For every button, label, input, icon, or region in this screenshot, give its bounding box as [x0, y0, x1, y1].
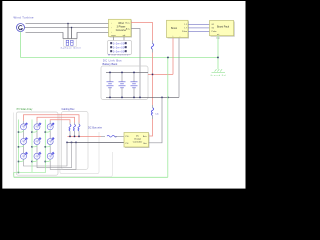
wire: generator ground green drop — [20, 32, 22, 58]
wire: battery positive rail — [106, 71, 148, 73]
wire: meter tap from phase B — [71, 28, 73, 40]
PV module PV5 — [32, 137, 41, 153]
node: negative bus junctions — [66, 142, 77, 144]
node: PV return junction — [18, 172, 20, 174]
wire: gate signal 1 — [188, 23, 210, 25]
PV module PV2 — [32, 122, 41, 138]
svg-text:Ldc: Ldc — [156, 114, 159, 116]
svg-text:Boost Pack: Boost Pack — [217, 26, 230, 29]
wire: red riser to boost block pin 1 — [172, 38, 174, 75]
svg-text:DC Bus wire: DC Bus wire — [88, 126, 103, 129]
PV module PV1 — [19, 122, 28, 138]
wire: battery negative rail — [106, 96, 179, 98]
wire: green return line to PV array — [14, 176, 168, 178]
svg-text:0.0e+00: 0.0e+00 — [113, 41, 125, 45]
wire: PV string 3 positive (red) — [49, 121, 51, 124]
scope SC1: wind scope display — [108, 41, 132, 55]
wire: converter meas stubs to scope — [113, 37, 115, 41]
cable inductor L4 — [74, 123, 76, 137]
wire: DC link green bus — [21, 57, 219, 59]
inductor L6 (dc bus wire) — [101, 135, 124, 137]
svg-text:PV-: PV- — [126, 143, 130, 145]
svg-text:Pulse: Pulse — [212, 31, 218, 33]
battery bank box — [101, 66, 148, 100]
svg-text:Bus-: Bus- — [126, 29, 130, 31]
PV module PV7 — [19, 152, 28, 162]
svg-text:Ground Ref: Ground Ref — [211, 74, 227, 77]
wire: meter tap from phase A — [67, 24, 69, 40]
ground symbol — [212, 69, 226, 72]
boost controller U2 — [167, 20, 190, 38]
PV array box — [16, 112, 58, 175]
cabling box — [62, 112, 89, 170]
svg-text:Boost: Boost — [171, 27, 177, 30]
node: inductor junctions on positive bus — [69, 136, 80, 138]
wire: Bat- gray to battery negative rail — [149, 97, 163, 142]
svg-text:Converter: Converter — [116, 29, 127, 32]
svg-text:0.0e+00: 0.0e+00 — [113, 49, 125, 53]
wire: gate signal 3 — [188, 30, 210, 32]
node: tap A on phase A — [67, 23, 68, 24]
wire: gate signal 2 — [188, 27, 210, 29]
wire: 3-phase line A — [26, 23, 109, 25]
node: green bus junction — [167, 57, 169, 59]
svg-text:Wind monitor: Wind monitor — [108, 54, 130, 57]
wire: green negative bus vertical — [167, 58, 169, 178]
wire: PV negative collection bus — [67, 141, 124, 143]
wire: Bus- gray from converter down to battery negative rail — [131, 29, 140, 98]
wire: PV green ground vertical — [18, 120, 20, 173]
wire: PV green bottom tie — [14, 171, 46, 173]
wire: PV string 1 positive (red) — [23, 121, 25, 124]
node: tap B on phase B — [71, 27, 72, 28]
boost pack U3 — [210, 21, 235, 37]
svg-text:DC: DC — [136, 136, 140, 138]
page background — [2, 1, 245, 189]
svg-text:PV Solar Array: PV Solar Array — [17, 108, 33, 111]
meter M1: 3-phase measurement — [64, 39, 77, 47]
svg-text:Controller: Controller — [133, 141, 143, 144]
wire: PV string 1 negative return — [24, 142, 68, 166]
wire: red DC+ vertical down to battery rail — [152, 53, 154, 106]
wire: PV string 3 negative return — [50, 142, 76, 169]
battery cell B1 — [107, 72, 114, 97]
wire: PV string 2 positive (red) — [36, 121, 38, 124]
PV module PV4 — [19, 137, 28, 153]
wire: PV positive bus to controller — [68, 135, 102, 137]
svg-text:DC Link Bus: DC Link Bus — [103, 59, 122, 62]
PV module PV8 — [32, 152, 41, 162]
svg-text:Charge: Charge — [134, 138, 142, 141]
charge controller U4 — [124, 133, 150, 149]
svg-text:0.0e+00: 0.0e+00 — [113, 45, 125, 49]
node: green tie dots — [18, 131, 46, 162]
wire: PV green ground vertical — [31, 120, 33, 173]
wire: 3-phase line B — [25, 27, 109, 29]
node: battery rail junctions — [109, 72, 169, 99]
wire: boost pack ground drop — [217, 36, 219, 70]
node: ground bus junction — [217, 57, 219, 59]
inductor L1 — [151, 41, 154, 53]
svg-text:Cabling Box: Cabling Box — [62, 108, 76, 111]
svg-text:Wind Turbine: Wind Turbine — [14, 15, 35, 19]
battery cell B3 — [131, 72, 138, 97]
PV module PV6 — [45, 137, 54, 153]
wire: Bus+ red from converter — [131, 23, 153, 41]
wire: red DC+ down to charge controller Bat+ — [149, 119, 153, 136]
PV module PV3 — [45, 122, 54, 138]
wire: battery positive rail red extension — [148, 73, 173, 75]
battery cell B2 — [119, 72, 126, 97]
frame: black border — [0, 0, 2, 193]
wire: gray riser to boost block pin 2 — [178, 38, 180, 98]
wire: PV green ground vertical — [44, 120, 46, 173]
svg-text:Bat-: Bat- — [143, 142, 147, 145]
generator G1 (wind turbine) — [17, 24, 25, 32]
svg-text:3-phase meter: 3-phase meter — [61, 47, 82, 50]
svg-text:Pulse: Pulse — [182, 31, 188, 33]
svg-text:Battery Bank: Battery Bank — [103, 62, 119, 66]
cable inductor L3 — [69, 123, 71, 137]
inductor L2 — [151, 105, 153, 119]
DC bus wire box — [60, 114, 99, 174]
PV module PV9 — [45, 152, 54, 162]
cable inductor L5 — [78, 123, 80, 137]
wire: 3-phase line C with dip through meter — [26, 33, 109, 39]
converter U1: wind 3-phase converter block — [109, 19, 133, 37]
wire: PV string 2 negative return — [37, 142, 72, 167]
